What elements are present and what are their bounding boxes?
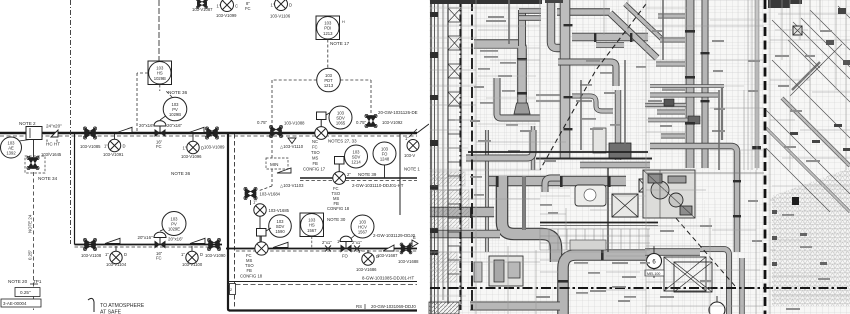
diagonal dashed mid right bbox=[648, 186, 735, 286]
svg-text:AT SAFE: AT SAFE bbox=[100, 310, 122, 314]
pipe pair left y96 bbox=[536, 95, 560, 101]
valve 103-V1103 bbox=[277, 168, 304, 188]
svg-text:HS: HS bbox=[157, 71, 163, 76]
check valve 103-V1687 bbox=[377, 245, 398, 258]
wire dash-dot pair y=282.5 bbox=[228, 281, 417, 283]
svg-text:20"x16": 20"x16" bbox=[139, 123, 155, 128]
svg-text:NOTE 1: NOTE 1 bbox=[404, 167, 420, 172]
svg-text:TSO: TSO bbox=[311, 150, 320, 155]
duct y252 extension bbox=[645, 248, 700, 256]
check valve lower-right bbox=[273, 242, 288, 247]
svg-text:1392: 1392 bbox=[6, 151, 16, 156]
duct x551 elbow bbox=[551, 0, 567, 48]
valve 103-V1085 bbox=[80, 127, 101, 149]
svg-text:1": 1" bbox=[104, 144, 108, 149]
rounded equipment box bbox=[575, 185, 606, 206]
svg-text:20"x16": 20"x16" bbox=[168, 237, 184, 242]
duct horizontal y95 right block bbox=[650, 93, 718, 98]
svg-text:1213: 1213 bbox=[324, 83, 334, 88]
svg-text:103-V: 103-V bbox=[404, 153, 415, 158]
pipes thin verticals mid bbox=[509, 0, 719, 230]
instrument 103 HCV 1567 bbox=[348, 215, 374, 241]
valve 103-V1106 top bbox=[270, 0, 292, 19]
svg-text:FC: FC bbox=[156, 144, 162, 149]
label RS 20-GW-1031069-DDJ0 bbox=[356, 304, 416, 309]
svg-text:D: D bbox=[289, 3, 292, 8]
svg-text:C: C bbox=[235, 4, 238, 9]
duct elbow x497 bbox=[497, 78, 540, 118]
instrument 103 SDV 1065 bbox=[329, 106, 352, 129]
svg-text:103-V1092: 103-V1092 bbox=[382, 120, 403, 125]
duct horizontal y212 left bbox=[430, 207, 494, 218]
flange marks on ducts bbox=[470, 24, 741, 283]
valve 103-V at right edge bbox=[400, 134, 419, 215]
ladder column left bbox=[448, 0, 461, 304]
valve 103-V1096 bbox=[181, 134, 204, 159]
svg-text:D: D bbox=[201, 146, 204, 151]
svg-text:NOTE 24: NOTE 24 bbox=[28, 214, 33, 233]
wire dashed riser x=234.5 bbox=[234, 134, 236, 308]
svg-text:1214: 1214 bbox=[351, 160, 361, 165]
wire heat-trace dashed under lower-left header bbox=[75, 246, 223, 248]
top dark bar left bbox=[430, 0, 563, 4]
wall line y173 right bbox=[646, 172, 764, 174]
svg-text:103-V1085: 103-V1085 bbox=[80, 144, 101, 149]
heavy dash-dot line x460 bbox=[459, 0, 461, 310]
duct y165 band bbox=[580, 162, 650, 169]
svg-text:1029E: 1029E bbox=[168, 227, 180, 232]
heavy line y152 bbox=[468, 151, 648, 153]
svg-text:△103-V1103: △103-V1103 bbox=[280, 183, 304, 188]
grid circle bottom bbox=[709, 296, 725, 314]
dense band y157 bbox=[536, 128, 652, 159]
label NC FC TSO MS FB CONFIG 17 bbox=[303, 139, 326, 172]
valve 103/V1645 bbox=[25, 152, 62, 181]
duct vertical x618 bbox=[615, 90, 621, 160]
check valve lower-left 2 bbox=[190, 238, 205, 243]
svg-text:HS: HS bbox=[309, 223, 315, 228]
wire dash-dot line x=70.5 bbox=[70, 0, 72, 244]
node E flag bbox=[412, 235, 418, 247]
svg-text:0.25": 0.25" bbox=[20, 290, 31, 295]
small dark marks mesh area bbox=[772, 8, 850, 266]
wire branch line y=178 bbox=[300, 178, 417, 181]
heavy dashed line x472 bbox=[471, 0, 473, 310]
svg-text:1590: 1590 bbox=[275, 229, 285, 234]
valve 103-V1090 bbox=[205, 238, 226, 258]
svg-text:3-AE-00004: 3-AE-00004 bbox=[3, 301, 27, 306]
valve 103-V1688 bbox=[398, 243, 419, 264]
control valve HCV-1567 body bbox=[337, 236, 352, 258]
duct horizontal y105 right block bbox=[645, 103, 686, 107]
equipment cluster top of grid line bbox=[643, 170, 695, 218]
top dark bar right bbox=[768, 0, 802, 8]
svg-text:103-V1686: 103-V1686 bbox=[356, 267, 377, 272]
svg-text:8-GW-1031085-DDJ01-HT: 8-GW-1031085-DDJ01-HT bbox=[362, 276, 414, 281]
svg-text:103-V1104: 103-V1104 bbox=[106, 262, 127, 267]
svg-text:NOTE 36: NOTE 36 bbox=[171, 171, 191, 176]
node NOTE 2 box bbox=[19, 121, 42, 140]
svg-text:NOTE 20: NOTE 20 bbox=[8, 279, 28, 284]
svg-text:20-GW-1031126-DE: 20-GW-1031126-DE bbox=[378, 110, 418, 115]
svg-text:103-V1685: 103-V1685 bbox=[269, 208, 290, 213]
svg-text:MS: MS bbox=[312, 156, 318, 161]
valve 103-V1684 bbox=[244, 187, 281, 205]
svg-text:RS: RS bbox=[356, 304, 362, 309]
valve SDV-1214 body bbox=[333, 157, 348, 185]
plan background bbox=[429, 0, 850, 314]
svg-text:103-V1684: 103-V1684 bbox=[260, 192, 281, 197]
svg-text:1065: 1065 bbox=[336, 121, 346, 126]
duct horizontal y233 left bbox=[430, 230, 500, 239]
control valve PV-1029E body bbox=[154, 228, 167, 261]
svg-text:103-V1687: 103-V1687 bbox=[377, 253, 398, 258]
svg-text:NC: NC bbox=[312, 139, 318, 144]
svg-text:1": 1" bbox=[337, 239, 341, 244]
svg-text:0.75": 0.75" bbox=[257, 120, 268, 125]
valve 103-V1108 bbox=[81, 238, 102, 258]
control valve PV-1029B body bbox=[154, 115, 167, 149]
node 3-AE-00004 box bbox=[1, 299, 41, 307]
big light panel bottom middle bbox=[570, 240, 606, 250]
svg-text:2"x1": 2"x1" bbox=[352, 240, 362, 245]
wire main header y=133 bbox=[0, 132, 417, 134]
svg-text:103-V1087: 103-V1087 bbox=[192, 7, 213, 12]
svg-text:FB: FB bbox=[313, 161, 319, 166]
node HS box 103 HS 1029B bbox=[148, 61, 172, 85]
svg-text:103-V1096: 103-V1096 bbox=[181, 154, 202, 159]
svg-text:0.25": 0.25" bbox=[28, 249, 33, 260]
svg-text:1": 1" bbox=[405, 136, 409, 141]
svg-text:20"x16": 20"x16" bbox=[138, 235, 154, 240]
diagonal thin lines top right bbox=[766, 6, 850, 212]
svg-text:20-GW-1031069-DDJ0: 20-GW-1031069-DDJ0 bbox=[371, 304, 416, 309]
valve 103-V1092 bbox=[356, 114, 403, 127]
svg-text:103-V1091: 103-V1091 bbox=[103, 152, 124, 157]
svg-text:103-V1100: 103-V1100 bbox=[182, 262, 203, 267]
svg-text:FC: FC bbox=[156, 256, 162, 261]
duct y12 bbox=[557, 8, 610, 15]
wire main header end tick bbox=[409, 124, 429, 137]
svg-text:24"x20": 24"x20" bbox=[46, 124, 62, 129]
svg-text:H: H bbox=[342, 20, 345, 24]
valve 103-V1091 bbox=[103, 134, 126, 157]
duct light vertical x757 bbox=[755, 0, 760, 168]
svg-text:D: D bbox=[376, 254, 379, 259]
reducer 2x1 right bbox=[352, 240, 362, 252]
svg-text:103-V1099: 103-V1099 bbox=[216, 13, 237, 18]
duct bottom left pair bbox=[470, 302, 560, 311]
duct elbow top mid bbox=[545, 178, 560, 192]
reducer 2x1 left bbox=[322, 240, 332, 252]
X-braced equipment squares bbox=[612, 26, 802, 292]
label HC HT bbox=[46, 140, 60, 147]
duct vertical x568 bbox=[560, 0, 571, 158]
node small box right riser bbox=[230, 284, 236, 295]
svg-text:2-GW-1031110-DDJ01-HT: 2-GW-1031110-DDJ01-HT bbox=[352, 183, 404, 188]
svg-text:D: D bbox=[123, 144, 126, 149]
svg-text:NOTES 27, 33: NOTES 27, 33 bbox=[328, 139, 357, 144]
svg-text:2": 2" bbox=[347, 172, 351, 177]
duct elbow to double risers x729 x742 bbox=[700, 249, 729, 314]
svg-text:1": 1" bbox=[358, 249, 362, 254]
svg-text:MIN: MIN bbox=[270, 162, 278, 167]
wire heavy riser x=228 bbox=[228, 133, 230, 311]
wire heat-trace dashed under main header bbox=[0, 135, 417, 137]
svg-text:FB: FB bbox=[247, 268, 253, 273]
svg-text:CONFIG 18: CONFIG 18 bbox=[240, 274, 263, 279]
svg-text:103-V1090: 103-V1090 bbox=[205, 253, 226, 258]
svg-text:1213: 1213 bbox=[323, 31, 333, 36]
duct zigzag mid bbox=[572, 96, 613, 111]
svg-text:103/V1645: 103/V1645 bbox=[41, 152, 62, 157]
check valve on main header bbox=[117, 127, 132, 132]
svg-text:1": 1" bbox=[181, 252, 185, 257]
svg-text:CONFIG 17: CONFIG 17 bbox=[303, 167, 326, 172]
duct diagonal pair top bbox=[610, 13, 657, 58]
instrument 103 SDV 1214 bbox=[345, 145, 368, 168]
node HS box 103 HS 1567 bbox=[300, 213, 346, 248]
svg-text:NOTE 2: NOTE 2 bbox=[19, 121, 36, 126]
svg-text:103-V1108: 103-V1108 bbox=[81, 253, 102, 258]
extra faint horizontals left-mid bbox=[430, 8, 850, 296]
pipe stub x722 bbox=[721, 88, 723, 140]
duct runs (gray with dark edges) bbox=[430, 0, 850, 314]
svg-text:103-V1088: 103-V1088 bbox=[284, 121, 305, 126]
svg-text:FC: FC bbox=[245, 6, 251, 11]
duct vertical x705 bbox=[702, 0, 709, 168]
svg-text:103-V1089: 103-V1089 bbox=[204, 145, 225, 150]
svg-text:△103-V1110: △103-V1110 bbox=[280, 144, 304, 149]
svg-text:2-GW-1031129-DDJ0: 2-GW-1031129-DDJ0 bbox=[373, 233, 416, 238]
diagonal dashed top middle bbox=[540, 4, 646, 170]
svg-text:TO ATMOSPHERE: TO ATMOSPHERE bbox=[100, 303, 145, 309]
wire heat-trace dashed under lower-right header bbox=[236, 250, 417, 252]
valve 103-V1104 bbox=[105, 246, 127, 267]
instrument 103 FO 1248 bbox=[373, 142, 396, 178]
valve 103-V1100 bbox=[181, 246, 203, 267]
valve 103-V1099 top bbox=[216, 0, 238, 18]
svg-text:1": 1" bbox=[105, 252, 109, 257]
wire lower-left header y=244.5 bbox=[75, 244, 223, 246]
valve 103-V1686 bbox=[356, 249, 379, 272]
svg-text:D: D bbox=[200, 252, 203, 257]
svg-text:D: D bbox=[124, 252, 127, 257]
svg-text:TP1: TP1 bbox=[33, 279, 42, 284]
label FC TSO MS FB CONFIG 18 upper bbox=[327, 186, 350, 211]
instrument 103 PV 1029E bbox=[162, 212, 186, 236]
heavy dash-dot horizontal y288 bbox=[430, 287, 850, 289]
duct vertical x522 with feed elbow bbox=[474, 44, 522, 112]
node PDI box 103 PDI 1213 bbox=[316, 16, 350, 46]
instrument 103 PDT 1213 bbox=[317, 68, 341, 92]
valve SDV-1065 body with actuator bbox=[315, 112, 331, 139]
svg-text:NOTE 39: NOTE 39 bbox=[358, 172, 377, 177]
valve bodies right block bbox=[664, 99, 674, 106]
duct vertical x524 upper-mid bbox=[522, 176, 526, 230]
reducer before V1089 bbox=[189, 127, 204, 132]
valve 103-V1110 bbox=[280, 138, 304, 149]
pipe thin x487 bbox=[485, 130, 489, 252]
svg-text:HC HT: HC HT bbox=[46, 142, 60, 147]
table grid bottom middle bbox=[540, 229, 650, 250]
wire riser x=74.5 bbox=[74, 133, 76, 245]
svg-text:NOTE 34: NOTE 34 bbox=[38, 176, 58, 181]
svg-text:NOTE 36: NOTE 36 bbox=[168, 90, 188, 95]
instrument 103 PV 1029B bbox=[163, 90, 187, 121]
svg-text:1": 1" bbox=[217, 4, 221, 9]
svg-text:MEL100: MEL100 bbox=[647, 272, 660, 276]
svg-text:FO: FO bbox=[342, 254, 349, 259]
svg-text:FC: FC bbox=[312, 145, 318, 150]
valve SDV-1590 body bbox=[255, 228, 271, 255]
label MS TSO FB CONFIG 18 lower bbox=[240, 253, 263, 279]
svg-text:0.75": 0.75" bbox=[356, 120, 367, 125]
node MIN box bbox=[258, 158, 288, 191]
wire AE sample line x=33.5 bbox=[33, 140, 35, 157]
label 8" FC bbox=[245, 1, 251, 11]
svg-text:1029B: 1029B bbox=[154, 76, 166, 81]
svg-text:1567: 1567 bbox=[358, 230, 368, 235]
svg-text:1029B: 1029B bbox=[169, 112, 181, 117]
svg-text:CONFIG 18: CONFIG 18 bbox=[327, 206, 350, 211]
svg-text:1": 1" bbox=[271, 3, 275, 8]
wire dashed PDI to PDT bbox=[327, 40, 329, 69]
valve 103-V1685 bbox=[254, 204, 290, 242]
duct big vertical x502 with elbow bbox=[502, 176, 556, 262]
pipe x533 bbox=[531, 126, 535, 170]
reducer at NOTE 2 bbox=[51, 130, 58, 137]
duct sweep to bottom riser x563 bbox=[563, 255, 648, 314]
wire HS drop line x=159 top bbox=[158, 0, 160, 61]
left edge dense strip bbox=[431, 0, 443, 314]
hatched room panels left-mid bbox=[431, 172, 469, 282]
duct big y181 bbox=[489, 176, 626, 187]
misc thin structure lines bbox=[430, 0, 850, 314]
heavy dashed grid line x765 bbox=[764, 0, 767, 314]
valve 103-V1087 top bbox=[192, 0, 213, 12]
wire dashed HS to PV bbox=[137, 73, 172, 133]
svg-text:1567: 1567 bbox=[307, 228, 317, 233]
duct y45 short bbox=[596, 42, 624, 48]
tri-mesh field bottom right bbox=[772, 168, 850, 306]
duct y62 with drop bbox=[558, 62, 616, 86]
valve 103-V1088 bbox=[257, 120, 305, 138]
svg-text:NOTE 30: NOTE 30 bbox=[327, 217, 346, 222]
node NOTE 20 TP1 bbox=[8, 279, 42, 284]
svg-text:2: 2 bbox=[230, 288, 232, 292]
svg-text:PDI: PDI bbox=[324, 26, 331, 31]
wire lower-right header y=248.5 bbox=[226, 248, 417, 250]
svg-text:1248: 1248 bbox=[380, 157, 390, 162]
duct horizontal y120 right block bbox=[648, 118, 700, 123]
wire bottom header y=310 bbox=[229, 309, 417, 311]
svg-text:NOTE 17: NOTE 17 bbox=[330, 41, 350, 46]
bell fitting x522 bbox=[514, 103, 530, 114]
duct stubs top x519-539 bbox=[519, 11, 541, 18]
check valve lower-left 1 bbox=[105, 238, 120, 243]
duct diagonal right mid bbox=[782, 98, 850, 166]
svg-text:E: E bbox=[413, 235, 416, 240]
grid circle 6 bbox=[645, 246, 664, 278]
svg-text:103-V1688: 103-V1688 bbox=[398, 259, 419, 264]
instrument 103 AE 1392 bbox=[1, 137, 31, 158]
wire dashed PDT taps bbox=[272, 80, 371, 158]
small equipment bottom middle bbox=[474, 256, 523, 286]
valve 103-V1089 bbox=[204, 127, 225, 150]
duct vertical x690 bbox=[686, 0, 695, 168]
wall line y223 bbox=[540, 223, 658, 226]
text blobs scattered bbox=[470, 16, 832, 310]
duct y37 long bbox=[572, 33, 648, 42]
node 0.25 box bbox=[15, 288, 40, 297]
instrument 103 SDV 1590 bbox=[269, 215, 292, 238]
duct diagonal right mid 2 bbox=[766, 128, 850, 212]
pipe y86 long bbox=[650, 84, 724, 88]
label TO ATMOSPHERE bbox=[88, 298, 145, 314]
svg-text:2"x1": 2"x1" bbox=[322, 240, 332, 245]
svg-text:103-V1106: 103-V1106 bbox=[270, 14, 291, 19]
wall x608 bbox=[607, 168, 609, 252]
duct y146 to riser x737 bbox=[650, 146, 737, 252]
svg-text:1": 1" bbox=[183, 146, 187, 151]
duct stub rack left of x690 bbox=[656, 16, 685, 136]
duct y158 with elbow up to x533 bbox=[466, 130, 533, 158]
svg-text:1": 1" bbox=[253, 200, 257, 205]
svg-text:20"x16": 20"x16" bbox=[167, 123, 183, 128]
